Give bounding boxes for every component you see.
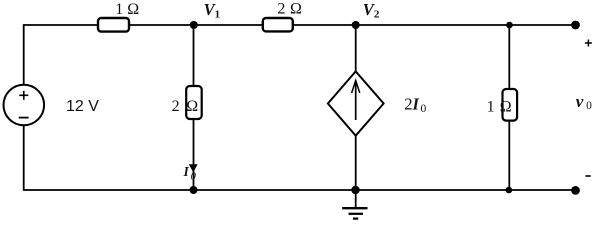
- current arrow I0: [189, 164, 198, 172]
- svg-text:1Ω: 1Ω: [115, 1, 139, 18]
- resistor R2 2ohm: [263, 18, 293, 31]
- svg-text:v0: v0: [576, 92, 592, 112]
- svg-text:V1: V1: [204, 0, 221, 20]
- wire node V1 branch: [193, 25, 195, 190]
- svg-text:2Ω: 2Ω: [277, 1, 302, 18]
- resistor R4 1ohm load: [503, 89, 518, 121]
- svg-text:2Ω: 2Ω: [172, 98, 199, 115]
- wire left branch lower: [23, 125, 25, 191]
- svg-text:1Ω: 1Ω: [487, 99, 512, 116]
- wire bottom rail: [24, 189, 576, 191]
- dependent current source 2I0: [328, 71, 384, 135]
- svg-text:2I0: 2I0: [404, 95, 426, 116]
- wire node V2 branch upper: [355, 25, 357, 72]
- terminal top: [571, 21, 580, 30]
- junction bottom right: [506, 187, 513, 194]
- node V2: [352, 21, 360, 29]
- junction bottom ground: [351, 186, 359, 194]
- wire top rail: [24, 24, 576, 26]
- svg-text:12 V: 12 V: [66, 98, 99, 115]
- svg-text:V2: V2: [363, 0, 380, 20]
- label minus output: [586, 175, 591, 177]
- ground: [342, 190, 367, 219]
- wire node V2 branch lower: [355, 136, 357, 191]
- junction top right: [506, 22, 513, 29]
- junction bottom i0: [190, 186, 198, 194]
- voltage source VS 12 V: [4, 85, 45, 126]
- resistor R3 2ohm vertical: [186, 86, 202, 119]
- wire right load branch: [508, 25, 510, 190]
- wire left branch upper: [23, 24, 25, 85]
- resistor R1 1ohm: [98, 18, 129, 32]
- node V1: [190, 21, 198, 29]
- label plus output: [585, 40, 592, 47]
- terminal bottom: [571, 186, 580, 195]
